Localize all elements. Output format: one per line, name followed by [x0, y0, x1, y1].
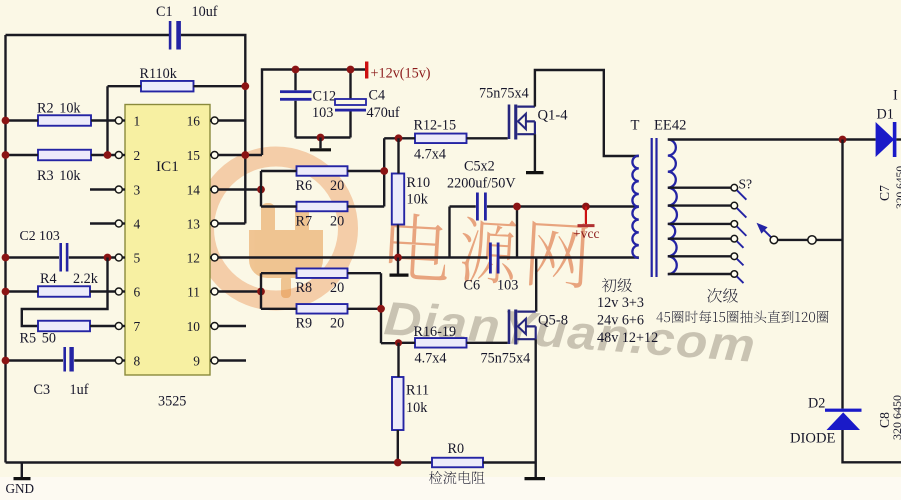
svg-text:10k: 10k: [407, 192, 429, 208]
resistor R6: [297, 166, 348, 176]
junction: pin 12 / R10 node: [394, 254, 402, 262]
transformer primary winding: [632, 156, 638, 258]
wire: R10 leads: [397, 138, 400, 257]
diode D2: [825, 409, 862, 412]
svg-text:D1: D1: [877, 107, 894, 123]
switch throw contact 3: [737, 227, 746, 236]
ground GND: [21, 463, 23, 478]
capacitor C1: [169, 21, 181, 50]
resistor R16-19: [415, 338, 467, 348]
junction: left rail at R2: [2, 117, 10, 125]
switch throw contact 4: [737, 241, 743, 247]
svg-text:R3 10k: R3 10k: [37, 168, 81, 184]
svg-text:20: 20: [330, 214, 344, 230]
svg-text:24v 6+6: 24v 6+6: [597, 313, 644, 329]
resistor R110k: [141, 81, 194, 92]
wire: R2 leads: [6, 119, 116, 121]
wire: bottom rail: [6, 461, 433, 463]
wire: R110k leads: [108, 85, 246, 87]
wire: C6 right to drain vertical and transformer bottom: [500, 258, 639, 312]
svg-text:R8: R8: [296, 280, 313, 296]
capacitor C6: [489, 243, 492, 274]
svg-text:20: 20: [330, 178, 344, 194]
junction: left rail at C2: [2, 254, 10, 262]
svg-text:103: 103: [497, 278, 518, 294]
junction: R110k/C1/vertical A: [241, 82, 249, 90]
svg-text:C7: C7: [877, 185, 892, 201]
svg-text:75n75x4: 75n75x4: [481, 351, 531, 367]
resistor R0: [432, 458, 483, 468]
wire: vertical B and +12v feed: [262, 70, 366, 156]
wire: R12-15 leads: [399, 137, 508, 139]
svg-text:C5x2: C5x2: [464, 159, 495, 175]
svg-text:48v 12+12: 48v 12+12: [597, 330, 658, 346]
svg-text:C3: C3: [34, 382, 51, 398]
label chuji primary: [602, 278, 632, 292]
wire: R16-19 leads: [399, 342, 508, 344]
junction: bottom link center: [317, 134, 325, 142]
watermark text dianyuanwang: [388, 212, 588, 288]
node: selector common: [770, 236, 778, 244]
wire: top wire to C1: [6, 34, 171, 36]
wire: R8 R9 left side: [261, 273, 297, 309]
wire: pin 10 stub: [218, 325, 246, 327]
wire: secondary tap 3: [668, 223, 731, 225]
wire: vertical from R110k left down to pin 2: [106, 86, 108, 155]
svg-text:C12: C12: [313, 89, 337, 105]
IC1 pin 3: [122, 188, 125, 190]
ground under Q1-4 source: [526, 171, 544, 174]
power +vcc: [585, 207, 587, 225]
svg-text:Q1-4: Q1-4: [538, 108, 569, 124]
svg-text:3525: 3525: [158, 394, 186, 410]
op-amp IC1 3525 body: [125, 105, 210, 376]
diode D1: [876, 122, 895, 157]
capacitor C2: [59, 243, 68, 272]
switch throw contact 6: [737, 277, 743, 283]
junction: left rail at R3: [2, 151, 10, 159]
svg-text:R6: R6: [296, 178, 313, 194]
wire: pin 14 to R6R7: [218, 188, 261, 190]
wire: C5 left link down to pin12 row: [448, 207, 450, 258]
resistor R11 vertical: [392, 377, 404, 430]
svg-text:6: 6: [134, 284, 141, 299]
node: tap 4 terminal: [731, 235, 738, 242]
wire: pin 16 to vertical A: [218, 119, 245, 121]
wire: R5 right lead: [90, 325, 115, 327]
wire: pin 13 to vertical A: [218, 222, 245, 224]
switch throw contact 5: [737, 259, 743, 265]
junction: pin2 node: [104, 151, 112, 159]
resistor R9: [297, 304, 348, 314]
IC1 pin 6: [122, 290, 125, 292]
wire: R6 R7 right side to vertical V1: [348, 138, 399, 206]
svg-text:I: I: [893, 88, 898, 104]
wire: C2 leads: [6, 256, 116, 258]
svg-text:R110k: R110k: [140, 66, 178, 82]
label ciji secondary: [707, 288, 738, 303]
svg-text:Q5-8: Q5-8: [538, 313, 568, 329]
node: tap 1 terminal: [731, 184, 738, 191]
wire: R6 R7 left side: [261, 171, 297, 207]
ground under Q5-8 source: [525, 477, 546, 480]
junction: R6 right: [380, 167, 388, 175]
resistor R5: [38, 321, 90, 332]
svg-text:R16-19: R16-19: [414, 324, 457, 340]
svg-text:4: 4: [134, 216, 141, 231]
svg-text:16: 16: [187, 113, 201, 128]
resistor R8: [297, 268, 348, 278]
switch throw contact 2: [737, 208, 746, 217]
wire: R11 leads: [397, 343, 400, 463]
node: tap 5 terminal: [731, 253, 738, 260]
svg-text:+12v(15v): +12v(15v): [371, 66, 431, 82]
svg-text:15: 15: [187, 148, 201, 163]
svg-text:470uf: 470uf: [367, 105, 400, 121]
junction: vcc tap: [582, 203, 590, 211]
svg-text:320 6450: 320 6450: [890, 395, 901, 440]
wire: pin 4 stub: [90, 222, 115, 224]
watermark plug glyph: [249, 203, 323, 298]
wire: C12-C4 bottom link: [296, 136, 351, 138]
resistor R7: [297, 202, 348, 212]
wire: R0 right lead: [483, 461, 536, 463]
wire: Q1-4 source down: [534, 134, 536, 171]
svg-text:320 6450: 320 6450: [895, 166, 901, 209]
IC1 pin 12: [210, 256, 212, 258]
capacitor C4 electrolytic: [349, 70, 351, 138]
wire: secondary tap 4: [668, 237, 731, 239]
svg-text:14: 14: [187, 182, 201, 197]
svg-text:103: 103: [312, 105, 333, 121]
node: tap 3 terminal: [731, 221, 738, 228]
svg-text:R11: R11: [406, 383, 429, 399]
junction: R9 right: [377, 305, 385, 313]
svg-text:C6: C6: [464, 278, 481, 294]
svg-text:R0: R0: [448, 441, 465, 457]
svg-text:20: 20: [330, 316, 344, 332]
svg-text:1uf: 1uf: [70, 382, 89, 398]
svg-text:3: 3: [134, 182, 141, 197]
svg-text:2: 2: [134, 148, 141, 163]
IC1 pin 4: [122, 222, 125, 224]
svg-text:R10: R10: [407, 175, 431, 191]
power +12v tick: [365, 62, 368, 79]
junction: R16-19 left node: [395, 339, 402, 346]
svg-text:2200uf/50V: 2200uf/50V: [447, 176, 516, 192]
svg-text:C1: C1: [156, 4, 173, 20]
transistor Q1-4 mosfet: [508, 105, 511, 140]
resistor R4: [38, 286, 90, 297]
svg-text:1: 1: [134, 113, 141, 128]
svg-text:5: 5: [134, 250, 141, 265]
svg-text:13: 13: [187, 216, 201, 231]
wire: secondary tap 2: [668, 204, 731, 206]
ground under pin12 node: [397, 258, 399, 274]
svg-text:GND: GND: [6, 481, 35, 496]
node: tap 2 terminal: [731, 202, 738, 209]
capacitor C5x2: [450, 205, 639, 207]
transistor Q5-8 mosfet: [508, 310, 511, 345]
wire: pin 9 stub: [218, 359, 246, 361]
junction: pin 15 / vertical A: [241, 151, 249, 159]
capacitor C3: [63, 347, 73, 372]
svg-text:8: 8: [134, 353, 141, 368]
svg-text:S?: S?: [739, 177, 753, 192]
wire: secondary tap 1: [668, 186, 731, 188]
wire: R8 R9 right side vertical V2 down to R16-19 node: [348, 273, 399, 343]
svg-text:20: 20: [330, 280, 344, 296]
IC1 pin 10: [210, 325, 212, 327]
wire: Q5-8 source down to ground: [535, 339, 537, 477]
wire: Q1-4 drain loop to transformer top: [535, 70, 639, 156]
IC1 pin 1: [122, 119, 125, 121]
svg-text:R12-15: R12-15: [414, 118, 457, 134]
resistor R2: [38, 115, 91, 126]
svg-text:R2 10k: R2 10k: [37, 101, 81, 117]
node: output terminal circle: [808, 236, 816, 244]
svg-text:10: 10: [187, 319, 201, 334]
IC1 pin 5: [122, 256, 125, 258]
svg-text:D2: D2: [808, 396, 825, 412]
junction: C4 top: [347, 66, 355, 74]
wire: left rail: [4, 35, 6, 463]
wire: C5 right link down: [516, 207, 518, 258]
svg-text:C2 103: C2 103: [20, 228, 60, 243]
junction: pin 14 node: [257, 186, 265, 194]
capacitor C12: [294, 70, 296, 138]
wire: C3 leads: [6, 359, 116, 361]
wire: pin 11 to R8R9: [218, 290, 261, 292]
svg-text:9: 9: [193, 353, 200, 368]
svg-text:DIODE: DIODE: [790, 431, 835, 447]
svg-text:12: 12: [187, 250, 200, 265]
watermark seal ring: [204, 157, 348, 301]
resistor R10 vertical: [392, 174, 404, 225]
switch throw contact 1: [737, 190, 746, 199]
IC1 pin 15: [210, 154, 212, 156]
wire: secondary tap 6: [668, 273, 731, 275]
junction: pin5 node: [104, 254, 112, 262]
IC1 pin 13: [210, 222, 212, 224]
IC1 pin 16: [210, 119, 212, 121]
svg-text:R4: R4: [40, 271, 57, 287]
resistor R12-15: [415, 134, 467, 144]
switch S selector arm: [764, 230, 771, 237]
IC1 pin 11: [210, 290, 212, 292]
junction: left rail at R4: [2, 288, 10, 296]
junction: C5 right: [513, 203, 521, 211]
svg-text:10k: 10k: [406, 400, 428, 416]
junction: D1 node: [839, 136, 847, 144]
junction: R12-15 left node: [395, 134, 403, 142]
junction: left rail at C3: [2, 357, 10, 365]
wire: right vertical rail: [841, 140, 843, 409]
svg-text:R5 50: R5 50: [20, 331, 56, 347]
IC1 pin 14: [210, 188, 212, 190]
wire: pin5 jog down to R5 left: [22, 258, 108, 327]
transformer secondary winding: [668, 140, 677, 275]
wire: secondary tap 5: [668, 255, 731, 257]
svg-text:2.2k: 2.2k: [73, 271, 99, 287]
svg-text:10uf: 10uf: [192, 4, 218, 20]
svg-text:4.7x4: 4.7x4: [414, 147, 446, 163]
label jianliu dianzu: [429, 471, 485, 484]
svg-text:4.7x4: 4.7x4: [415, 351, 447, 367]
IC1 pin 7: [122, 325, 125, 327]
svg-text:7: 7: [134, 319, 141, 334]
wire: D1 output to edge: [896, 138, 901, 140]
svg-text:12v 3+3: 12v 3+3: [597, 295, 644, 311]
svg-text:R9: R9: [296, 316, 313, 332]
svg-text:+vcc: +vcc: [573, 226, 600, 241]
wire: D2 down and out: [843, 430, 901, 462]
junction: C12 top: [292, 66, 300, 74]
IC1 pin 2: [122, 154, 125, 156]
IC1 pin 8: [122, 359, 125, 361]
junction: pin 11 node: [257, 288, 265, 296]
wire: selector output: [778, 239, 843, 241]
svg-text:IC1: IC1: [156, 158, 179, 175]
wire: pin 15 to vertical B: [218, 154, 262, 156]
transformer T EE42 core: [652, 138, 657, 277]
wire: R3 leads: [6, 154, 116, 156]
wire: pin 12 long wire to C6: [218, 256, 487, 258]
wire: secondary top lead to D1: [668, 138, 876, 140]
IC1 pin 9: [210, 359, 212, 361]
svg-text:C4: C4: [369, 88, 386, 104]
svg-text:T EE42: T EE42: [631, 118, 687, 134]
svg-text:75n75x4: 75n75x4: [479, 86, 529, 102]
svg-text:11: 11: [187, 284, 200, 299]
node: tap 6 terminal: [731, 271, 738, 278]
svg-text:R7: R7: [296, 214, 313, 230]
resistor R3: [38, 150, 91, 161]
wire: R4 leads: [6, 290, 116, 292]
junction: R11 bottom: [394, 459, 402, 467]
label 45 quan tap note: [657, 311, 829, 324]
wire: pin 3 stub: [90, 188, 115, 190]
wire: C1 right to vertical A down to pin 13 row: [181, 35, 245, 224]
ground under C12/C4: [319, 138, 321, 149]
